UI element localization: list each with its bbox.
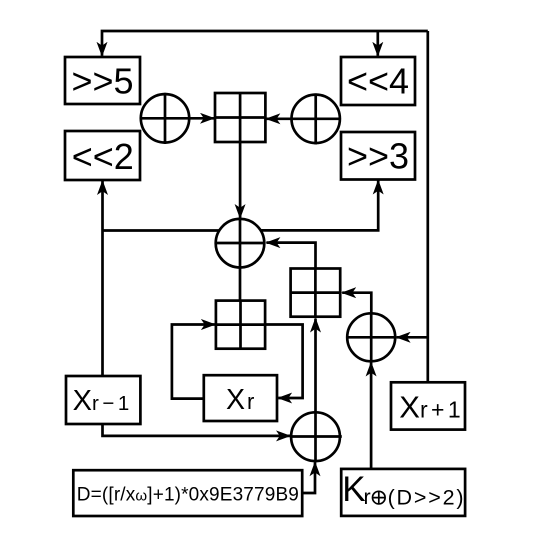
wire U1 vertical cross: [164, 93, 167, 144]
wire U3 vertical cross down to adder A2 top: [239, 219, 242, 301]
adder A1 (boxed plus, top centre): [215, 93, 265, 142]
wire top bus from Xr+1 feeding >>5 and <<4: [102, 31, 428, 56]
wire U2 horizontal cross and output into adder A1: [266, 117, 341, 120]
wire A2 internal horizontal: [216, 323, 265, 326]
wire A3 internal vertical: [314, 269, 317, 317]
wire from xor U5 up into A3 bottom: [314, 319, 317, 413]
box K subkey: [341, 469, 465, 516]
svg-text:<<2: <<2: [72, 136, 134, 177]
wire U3 output right then up into >>3: [261, 181, 379, 231]
wire U1 horizontal cross and output into adder A1: [140, 117, 214, 120]
xor U2 (right, between <<4 and >>3): [292, 95, 340, 143]
box <<2: [65, 131, 140, 180]
wire left vertical from Xr-1 up into <<2: [101, 181, 104, 376]
svg-text:r: r: [364, 485, 371, 509]
svg-text:D=([r/xω]+1)*0x9E3779B9: D=([r/xω]+1)*0x9E3779B9: [77, 485, 299, 506]
svg-text:Xr+1: Xr+1: [399, 390, 464, 425]
svg-text:(D>>2): (D>>2): [388, 485, 466, 509]
box Xr-1: [66, 376, 140, 424]
wire U5 vertical cross: [314, 412, 317, 461]
wire A2 output right, down, into Xr right (arrow): [265, 325, 303, 399]
wire U4 vertical cross: [370, 314, 373, 362]
wire right vertical from top bus to Xr+1 top: [426, 31, 429, 382]
wire branch down into <<4: [376, 31, 379, 56]
wire U5 horizontal cross: [291, 435, 342, 438]
xor U4 (right middle): [347, 313, 395, 361]
wire from D box up into U5 bottom (arrow): [302, 462, 315, 493]
svg-text:<<4: <<4: [347, 61, 409, 102]
wire from K box up into U4 bottom: [370, 363, 373, 469]
box >>5: [65, 57, 140, 104]
wire U2 vertical cross: [314, 93, 317, 144]
wire from adder A3 top into U3 right (arrow): [266, 243, 315, 269]
wire loop from Xr left up into A2 left (arrow): [172, 325, 215, 399]
box <<4: [341, 57, 415, 105]
box Xr: [204, 375, 277, 421]
box D formula: [73, 470, 302, 516]
adder A3 (boxed plus, right of centre): [291, 269, 341, 317]
wire from Xr-1 bottom into U5 left (arrow): [103, 424, 291, 436]
box Xr+1: [391, 382, 465, 429]
wire A3 internal horizontal: [291, 291, 341, 294]
wire U4 horizontal cross: [347, 336, 396, 339]
oplus glyph in K subscript: [372, 491, 385, 504]
wire U3 horizontal cross: [215, 242, 265, 245]
svg-text:K: K: [342, 470, 365, 509]
adder A2 (boxed plus, centre low): [216, 301, 265, 349]
xor U1 (left, between >>5 and <<2): [141, 94, 189, 142]
wire A2 internal vertical: [239, 301, 242, 349]
wire A1 internal vertical and output down into xor U3: [239, 93, 242, 218]
xor U5 (bottom): [291, 412, 340, 461]
svg-text:Xr−1: Xr−1: [73, 385, 133, 417]
wire A1 internal horizontal: [215, 116, 265, 119]
svg-text:>>3: >>3: [347, 136, 409, 177]
wire from xor U4 up and left into A3 right: [342, 293, 371, 314]
wire U3 output left to junction on left vertical: [103, 229, 220, 232]
svg-text:>>5: >>5: [71, 61, 133, 102]
box >>3: [341, 132, 415, 180]
svg-text:Xr: Xr: [226, 384, 254, 416]
xor U3 (central): [216, 219, 265, 268]
wire branch from right vertical into xor U4 right: [397, 336, 428, 339]
